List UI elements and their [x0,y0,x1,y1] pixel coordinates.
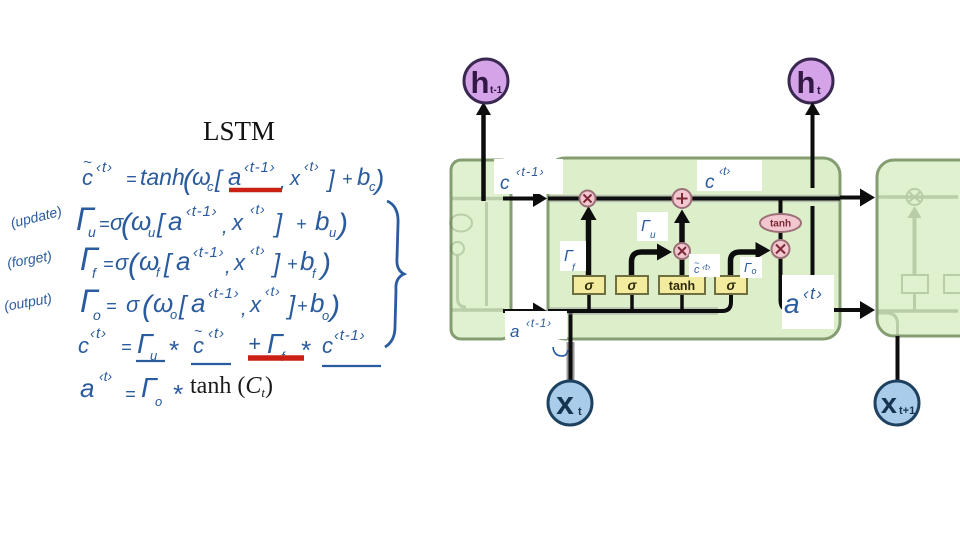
a line output [781,258,876,319]
svg-text:c: c [322,333,333,358]
svg-text:=: = [125,384,136,404]
svg-text:σ: σ [628,278,638,293]
svg-text:a: a [80,373,94,403]
svg-text:o: o [155,394,162,409]
svg-text:=: = [99,214,110,234]
svg-text:‹t›: ‹t› [250,201,266,217]
svg-text:σ: σ [727,278,737,293]
svg-text:t-1: t-1 [490,85,503,96]
svg-text:‹t-1›: ‹t-1› [526,318,552,330]
label Gamma u [637,212,668,241]
svg-text:a: a [510,322,519,341]
label a t [782,275,834,329]
c line input arrow [503,190,547,207]
svg-text:‹t-1›: ‹t-1› [516,165,545,179]
plus node [673,189,692,208]
multiply node x3 [772,240,790,258]
svg-text:tanh: tanh [140,164,185,190]
label c t-1 [494,159,563,194]
svg-text:‹t-1›: ‹t-1› [244,159,276,176]
brace [385,201,404,347]
ghost internals next cell [878,189,960,335]
svg-text:‹t›: ‹t› [265,283,281,299]
svg-text:x: x [233,250,246,275]
gate sigma2 elbow arrow [632,244,673,277]
tanh oval [760,214,801,232]
svg-text:x: x [556,385,574,421]
svg-text:‹t-1›: ‹t-1› [186,203,218,220]
svg-text:a: a [191,288,205,318]
svg-text:=: = [106,296,117,316]
c line output arrow [840,189,875,207]
svg-text:t+1: t+1 [899,405,915,417]
underlines eq5 [136,360,165,362]
svg-text:x: x [881,388,897,420]
h branch line [805,102,820,310]
svg-text:c: c [207,179,214,194]
cell previous (left partial) [451,160,511,339]
svg-text:‹t›: ‹t› [90,325,107,342]
svg-text:o: o [93,307,101,323]
svg-text:a: a [176,246,190,276]
h t circle [789,59,833,103]
svg-text:x: x [231,210,244,235]
svg-text:σ: σ [585,278,595,293]
svg-text:Γ: Γ [80,241,100,277]
svg-text:LSTM: LSTM [203,116,275,146]
svg-text:*: * [168,335,179,365]
svg-text:tanh (Ct): tanh (Ct) [190,373,273,400]
svg-text:‹t-1›: ‹t-1› [334,327,366,344]
gate box tanh [659,276,705,294]
svg-text:+: + [296,214,307,234]
label Gamma o [740,257,762,278]
svg-text:*: * [172,379,183,409]
cell main [548,158,840,339]
svg-text:o: o [322,308,329,323]
equation 3 forget gate [6,241,331,281]
svg-text:t: t [817,85,821,97]
label c tilde t [689,254,720,277]
gate box sigma4 [715,276,747,294]
label Gamma f [560,241,586,274]
gate tanh stub up [680,258,685,276]
svg-text:,: , [225,256,231,278]
svg-text:c: c [78,333,89,358]
label a t-1 [505,311,568,356]
svg-text:b: b [315,206,329,236]
a line input arrow [503,303,547,320]
svg-text:a: a [784,288,800,319]
multiply node x1 [580,191,596,207]
svg-text:‹t›: ‹t› [803,284,824,303]
svg-text:σ: σ [126,292,140,317]
label c t [697,160,762,193]
tanh branch stub [779,199,783,241]
equation 5 c update [78,323,366,365]
svg-text:σ: σ [115,250,129,275]
svg-text:a: a [168,206,182,236]
svg-text:‹t›: ‹t› [99,368,113,384]
svg-text:h: h [471,65,490,100]
svg-text:=: = [103,254,114,274]
x t circle [548,311,592,425]
svg-text:u: u [329,225,336,240]
svg-text:‹t›: ‹t› [719,164,730,178]
gate sigma1 arrow up [581,206,597,276]
gate stubs down [589,294,682,311]
gate sigma4 elbow arrow [731,242,771,276]
svg-text:c: c [705,172,715,193]
svg-text:+: + [287,254,298,274]
svg-text:x: x [289,168,301,190]
svg-text:=: = [121,337,132,357]
svg-text:=: = [126,169,137,189]
svg-text:‹t›: ‹t› [250,242,266,258]
svg-text:‹t-1›: ‹t-1› [208,285,240,302]
svg-text:‹t›: ‹t› [304,158,320,174]
svg-text:]: ] [326,166,336,193]
svg-text:+: + [297,296,308,316]
svg-text:t: t [578,406,582,418]
svg-text:tanh: tanh [669,279,695,293]
gate box sigma1 [573,276,605,294]
svg-text:u: u [88,224,96,240]
red underline eq1 [229,188,282,193]
a line main [548,294,731,311]
svg-text:‹t›: ‹t› [208,325,225,342]
c line main [548,195,840,203]
ghost internals previous cell [450,199,504,311]
cell next (right partial) [877,160,960,336]
svg-text:u: u [650,230,656,241]
svg-text:tanh: tanh [770,219,791,230]
title LSTM [203,116,275,146]
svg-text:~: ~ [694,258,699,268]
svg-text:o: o [170,307,177,322]
equation 4 output gate [3,283,340,323]
svg-text:x: x [249,292,262,317]
svg-text:+: + [342,169,353,189]
svg-text:~: ~ [194,323,202,339]
equation 2 update gate [9,201,348,241]
svg-text:+: + [248,331,261,356]
svg-text:o: o [752,266,757,276]
svg-text:‹t›: ‹t› [702,262,711,272]
equation 6 a output [80,368,273,409]
svg-text:‹t›: ‹t› [96,159,113,176]
equation 1 c tilde [82,154,384,195]
svg-text:a: a [228,164,241,191]
svg-text:,: , [241,298,247,320]
gate box sigma2 [616,276,648,294]
h t-1 circle [464,59,508,201]
svg-text:‹t-1›: ‹t-1› [193,244,225,261]
multiply node x2 [674,243,690,259]
x2 to plus arrow [674,210,690,244]
svg-text:~: ~ [83,154,92,171]
svg-text:c: c [500,173,510,194]
svg-text:,: , [222,216,228,238]
svg-text:u: u [148,225,155,240]
svg-text:h: h [797,65,816,100]
x t+1 circle [875,336,919,425]
